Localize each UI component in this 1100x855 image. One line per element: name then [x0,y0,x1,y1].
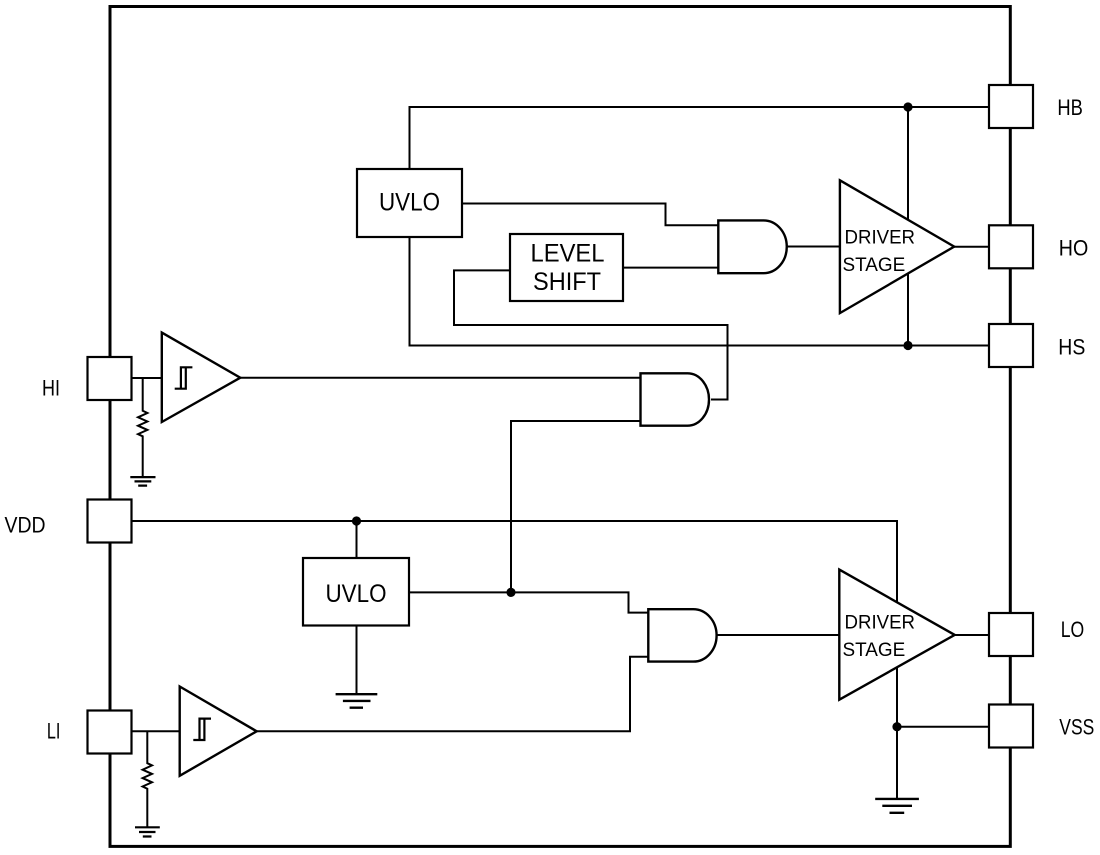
wire LI pin to schmitt buffer [131,730,181,732]
vertical line VDD through driver 2 [896,521,898,727]
AND gate 1 (high side) [718,220,786,273]
junction dot VSS [892,722,901,731]
svg-text:STAGE: STAGE [843,640,906,661]
block UVLO low-side [303,558,409,626]
svg-text:HS: HS [1058,334,1085,359]
ground under UVLO low-side [336,694,378,708]
pin square LI [88,711,132,754]
pin square VDD [88,500,132,543]
wire HB net (UVLO1 top to HB pin) [410,107,991,170]
wire LEVEL SHIFT output to AND1 bottom input [623,267,719,269]
wire LI schmitt output to AND3 bottom input [257,657,649,732]
junction dot HS [903,341,912,350]
wire AND2 output to LEVEL SHIFT input [454,270,728,399]
schmitt hysteresis symbol LI [193,719,211,740]
pin square LO [989,613,1033,656]
resistor R2 at LI input [143,731,152,827]
block LEVEL SHIFT [510,234,623,301]
schmitt buffer LI triangle [180,687,257,776]
svg-text:VDD: VDD [5,513,46,538]
junction dot UVLO2 output [506,588,515,597]
svg-text:DRIVER: DRIVER [845,228,916,249]
svg-text:HB: HB [1057,95,1083,120]
pin square HS [989,324,1033,367]
pin square HI [88,357,132,400]
driver stage 2 triangle [839,570,954,700]
svg-text:LI: LI [47,719,61,744]
svg-text:LO: LO [1061,617,1085,642]
wire UVLO2 node to AND2 bottom input [511,421,641,592]
wire HI schmitt output to AND2 top input [241,377,641,379]
wire UVLO1 output to AND1 top input [461,204,718,226]
svg-text:HO: HO [1059,236,1089,261]
svg-text:STAGE: STAGE [843,255,906,276]
schmitt hysteresis symbol HI [175,367,193,388]
ground small under R2 [135,827,160,836]
block UVLO high-side [357,169,462,237]
wire HS net (UVLO1 bottom to HS pin) [410,236,991,346]
driver stage 1 triangle [840,180,954,313]
pin square HB [989,85,1033,128]
schmitt buffer HI triangle [162,333,241,422]
resistor R1 at HI input [138,378,147,477]
svg-text:UVLO: UVLO [379,188,440,216]
svg-text:LEVEL: LEVEL [531,239,605,267]
wire UVLO2 ground stub [356,625,358,695]
svg-text:VSS: VSS [1059,714,1094,739]
wire driver 2 output to LO pin [954,634,990,636]
wire VDD net [131,521,898,727]
wire AND1 output to driver stage 1 [787,246,841,248]
junction dot VDD [352,516,361,525]
wire VDD stub to UVLO2 [356,521,358,559]
pin square VSS [989,705,1033,748]
wire HI pin to schmitt buffer [131,377,163,379]
ground small under R1 [130,477,155,486]
wire UVLO2 output to AND3 top input [408,592,649,612]
wire AND3 output to driver stage 2 [717,634,841,636]
svg-text:HI: HI [42,376,60,401]
junction dot HB [903,102,912,111]
AND gate 3 (low side) [648,609,716,661]
pin square HO [989,225,1033,268]
svg-text:DRIVER: DRIVER [845,613,916,634]
wire driver 1 output to HO pin [954,246,990,248]
vertical line HB-to-HS through driver 1 [907,107,909,346]
wire VSS net [897,727,990,799]
svg-text:UVLO: UVLO [326,580,387,608]
ground at VSS [875,799,919,813]
AND gate 2 (level shift input) [641,373,710,425]
svg-text:SHIFT: SHIFT [533,268,601,296]
